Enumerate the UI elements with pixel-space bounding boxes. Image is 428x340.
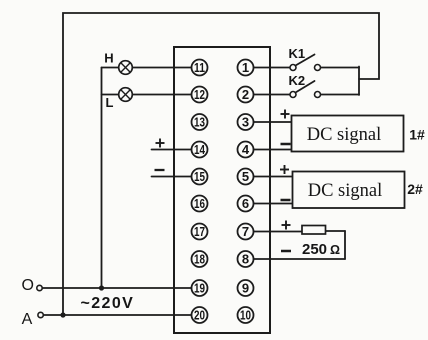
svg-text:2#: 2# xyxy=(407,181,423,197)
svg-text:K2: K2 xyxy=(289,73,306,88)
svg-text:2: 2 xyxy=(242,87,249,102)
svg-text:1#: 1# xyxy=(409,127,425,143)
svg-text:19: 19 xyxy=(194,281,205,296)
svg-text:H: H xyxy=(104,51,113,66)
svg-text:20: 20 xyxy=(194,308,205,323)
svg-text:5: 5 xyxy=(242,169,249,184)
svg-text:L: L xyxy=(106,95,114,110)
svg-text:16: 16 xyxy=(194,196,205,211)
svg-text:10: 10 xyxy=(240,308,251,323)
svg-text:7: 7 xyxy=(242,224,249,239)
svg-text:~220V: ~220V xyxy=(81,295,135,312)
svg-text:O: O xyxy=(21,277,33,294)
svg-text:Ω: Ω xyxy=(330,243,340,257)
svg-text:A: A xyxy=(22,311,33,328)
svg-text:18: 18 xyxy=(194,252,205,267)
svg-text:15: 15 xyxy=(194,169,205,184)
svg-text:K1: K1 xyxy=(289,46,306,61)
svg-text:1: 1 xyxy=(242,60,249,75)
svg-text:13: 13 xyxy=(194,115,205,130)
svg-text:17: 17 xyxy=(194,224,205,239)
svg-text:3: 3 xyxy=(242,115,249,130)
svg-text:12: 12 xyxy=(194,87,205,102)
svg-text:250: 250 xyxy=(302,241,327,258)
svg-text:DC signal: DC signal xyxy=(307,125,382,145)
svg-text:DC signal: DC signal xyxy=(308,181,383,201)
svg-text:6: 6 xyxy=(242,196,249,211)
svg-text:11: 11 xyxy=(194,60,205,75)
svg-text:9: 9 xyxy=(242,281,249,296)
svg-text:4: 4 xyxy=(242,142,250,157)
svg-text:14: 14 xyxy=(194,142,206,157)
svg-text:8: 8 xyxy=(242,252,249,267)
